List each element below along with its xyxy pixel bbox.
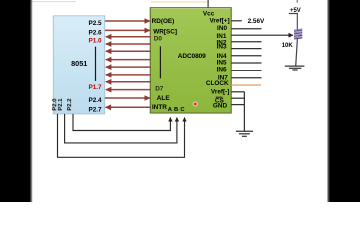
left letterbox bar [0, 0, 30, 202]
svg-text:B: B [174, 107, 178, 113]
stub IN7 [231, 77, 261, 79]
wire P2.5 to RD(OE) [105, 20, 150, 22]
data range line D0-D7 [159, 46, 161, 78]
svg-text:IN3: IN3 [217, 44, 227, 51]
svg-text:2.56V: 2.56V [248, 18, 265, 25]
ground symbol (pot) [285, 66, 305, 70]
svg-text:GND: GND [213, 103, 228, 110]
ADC0809 box [150, 8, 231, 113]
wire P2.1 to B [65, 114, 177, 143]
svg-text:8051: 8051 [71, 59, 87, 68]
wire D6 [106, 81, 151, 83]
stub IN3 [231, 48, 261, 50]
svg-text:WR[SC]: WR[SC] [153, 28, 177, 35]
svg-text:P2.5: P2.5 [88, 20, 102, 27]
stub IN2 [231, 41, 261, 43]
right letterbox bar [329, 0, 360, 202]
ground drop wire [243, 92, 245, 131]
svg-text:CLOCK: CLOCK [206, 80, 229, 87]
wire +5V to resistor [296, 14, 298, 31]
red bullet dot [193, 101, 198, 106]
+5V terminal bar [289, 13, 298, 15]
svg-text:RD(OE): RD(OE) [152, 18, 175, 25]
wire D5 [106, 74, 151, 76]
svg-text:Vref[-]: Vref[-] [211, 89, 229, 96]
svg-text:P2.4: P2.4 [88, 97, 102, 104]
pin label CS overline [216, 96, 223, 98]
Vcc supply wire [207, 0, 209, 8]
faint cropped line top-left [30, 1, 76, 3]
wire P2.4 to ALE [105, 97, 150, 99]
svg-text:IN5: IN5 [217, 59, 227, 66]
svg-text:P2.6: P2.6 [88, 30, 102, 37]
stub IN5 [231, 62, 261, 64]
wire D4 [106, 66, 151, 68]
svg-text:IN6: IN6 [217, 67, 227, 74]
svg-text:D0: D0 [154, 35, 163, 42]
svg-text:P2.1: P2.1 [58, 98, 64, 111]
svg-text:10K: 10K [282, 43, 294, 49]
svg-text:IN0: IN0 [217, 25, 227, 32]
CLOCK wire (orange) [231, 84, 261, 86]
svg-text:Vref[+]: Vref[+] [210, 18, 230, 25]
wire P2.2 to A [73, 114, 170, 131]
svg-text:INTR: INTR [152, 104, 167, 111]
wire INTR to P2.7 [106, 106, 151, 108]
wire D0 to P1.0 [106, 36, 151, 38]
stub IN6 [231, 70, 261, 72]
ground symbol (ADC) [236, 131, 253, 136]
wire D2 [106, 50, 151, 52]
+5V terminal tick [296, 0, 298, 3]
wire resistor to ground [296, 39, 298, 66]
8051 MCU box [53, 16, 104, 114]
svg-text:P2.2: P2.2 [67, 98, 73, 111]
wire D7 to P1.7 [106, 89, 151, 91]
ADC box top highlight [151, 8, 231, 10]
svg-text:P1.7: P1.7 [88, 84, 102, 91]
wire P2.6 to WR[SC] [105, 29, 150, 31]
svg-text:ALE: ALE [157, 95, 171, 102]
stub IN4 [231, 55, 261, 57]
wire D3 [106, 59, 151, 61]
stub GND [231, 104, 244, 106]
faint cropped line top-middle [151, 1, 209, 3]
wire Vref[+] to 2.56V [231, 20, 242, 22]
wire P2.0 to C [58, 114, 185, 157]
port range line P1.0-P1.7 [95, 47, 97, 81]
stub Vref[-] [231, 91, 244, 93]
svg-text:P1.0: P1.0 [88, 38, 102, 45]
stub IN0 [231, 28, 261, 30]
svg-text:P2.7: P2.7 [88, 107, 102, 114]
wire IN1 to potentiometer wiper [231, 34, 293, 36]
stub CS [231, 97, 244, 99]
svg-text:D7: D7 [155, 86, 164, 93]
potentiometer R 10K (coil bars) [294, 29, 302, 38]
svg-text:ADC0809: ADC0809 [178, 53, 206, 60]
wire D1 [106, 43, 151, 45]
